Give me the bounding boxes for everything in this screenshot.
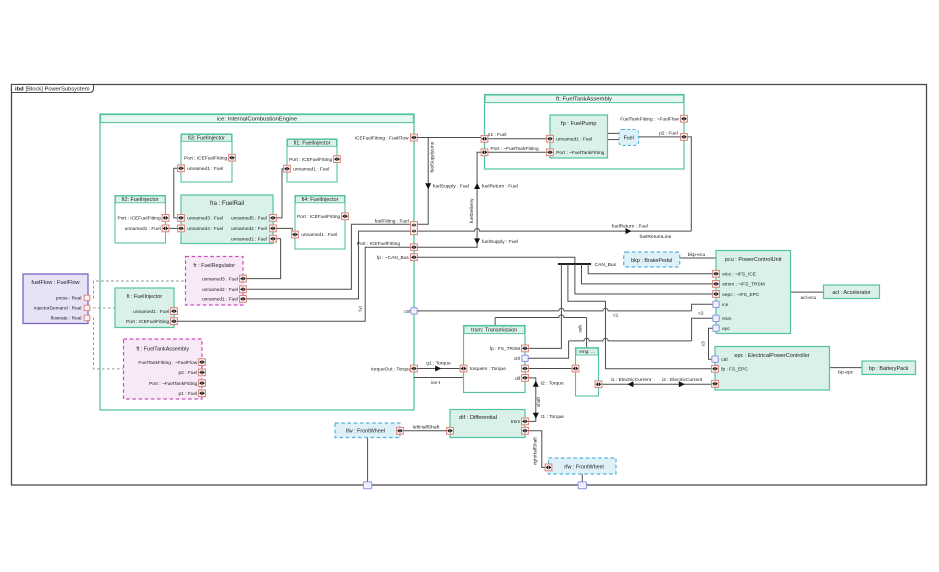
svg-text:fi3: FuelInjector: fi3: FuelInjector xyxy=(188,135,225,141)
svg-text:unnamed1 : Fuel: unnamed1 : Fuel xyxy=(301,232,337,238)
svg-text:t2 : Torque: t2 : Torque xyxy=(541,380,564,386)
svg-text:fp : ~CAN_Bus: fp : ~CAN_Bus xyxy=(377,255,409,261)
svg-text:f-rl: f-rl xyxy=(358,306,363,311)
svg-text:fuelFitting : Fuel: fuelFitting : Fuel xyxy=(375,218,409,224)
svg-text:leftHalfShaft: leftHalfShaft xyxy=(413,424,440,430)
svg-text:unnamed3 : Fuel: unnamed3 : Fuel xyxy=(187,216,223,222)
svg-text:unnamed1 : Fuel: unnamed1 : Fuel xyxy=(231,236,267,242)
svg-text:bp-epc: bp-epc xyxy=(838,370,854,376)
svg-text:fuelReturn : Fuel: fuelReturn : Fuel xyxy=(612,223,648,229)
svg-text:dif : Differential: dif : Differential xyxy=(459,415,497,421)
svg-text:fp : FS_EPC: fp : FS_EPC xyxy=(721,367,748,373)
svg-text:fuelFlow : FuelFlow: fuelFlow : FuelFlow xyxy=(31,280,80,286)
svg-text:unnamed1 : Fuel: unnamed1 : Fuel xyxy=(202,297,238,303)
svg-text:bkp-ecu: bkp-ecu xyxy=(688,252,706,258)
svg-text:Fuel: Fuel xyxy=(624,136,634,142)
svg-text:injectorDemand : Real: injectorDemand : Real xyxy=(34,306,81,312)
svg-text:fp : FuelPump: fp : FuelPump xyxy=(561,121,596,127)
svg-text:unnamed2 : Fuel: unnamed2 : Fuel xyxy=(202,287,238,293)
svg-text:rightHalfShaft: rightHalfShaft xyxy=(533,436,538,465)
svg-text:fuelDelivery: fuelDelivery xyxy=(469,198,474,223)
svg-text:etrsm : ~IFS_TRSM: etrsm : ~IFS_TRSM xyxy=(722,282,765,288)
svg-text:trsm: trsm xyxy=(722,316,731,322)
svg-text:Port : ICEFuelFitting: Port : ICEFuelFitting xyxy=(297,214,341,220)
svg-text:acl-ecu: acl-ecu xyxy=(801,295,817,301)
svg-text:flowrate : Real: flowrate : Real xyxy=(51,316,82,322)
svg-text:fuelSupply : Fuel: fuelSupply : Fuel xyxy=(482,239,518,245)
svg-text:trsm: Transmission: trsm: Transmission xyxy=(471,328,517,334)
svg-text:p2 : Fuel: p2 : Fuel xyxy=(179,370,198,376)
svg-text:ice: InternalCombustionEngine: ice: InternalCombustionEngine xyxy=(217,116,298,122)
svg-text:eepc : ~IFS_EPC: eepc : ~IFS_EPC xyxy=(722,292,760,298)
svg-text:c2: c2 xyxy=(698,311,703,317)
svg-text:Port : ~FuelTankFitting: Port : ~FuelTankFitting xyxy=(491,146,539,152)
svg-text:torqueIn : Torque: torqueIn : Torque xyxy=(470,366,507,372)
svg-text:fuelReturnLine: fuelReturnLine xyxy=(640,234,672,240)
svg-text:bp : BatteryPack: bp : BatteryPack xyxy=(869,366,909,372)
svg-text:Port : ICEFuelFitting: Port : ICEFuelFitting xyxy=(357,241,401,247)
svg-text:fp : FS_TRSM: fp : FS_TRSM xyxy=(490,346,520,352)
svg-text:Port : ICEFuelFitting: Port : ICEFuelFitting xyxy=(118,216,162,222)
svg-text:t1 : Torque: t1 : Torque xyxy=(541,414,564,420)
svg-text:Port : ICEFuelFitting: Port : ICEFuelFitting xyxy=(289,157,333,163)
svg-text:ft: FuelTankAssembly: ft: FuelTankAssembly xyxy=(556,97,612,103)
svg-text:ibd: ibd xyxy=(15,86,24,92)
svg-text:p1 : Fuel: p1 : Fuel xyxy=(488,132,507,138)
svg-text:unnamed2 : Fuel: unnamed2 : Fuel xyxy=(231,226,267,232)
svg-text:ice-t: ice-t xyxy=(431,380,441,386)
svg-text:FuelTankFitting : ~FuelFlow: FuelTankFitting : ~FuelFlow xyxy=(620,117,679,123)
svg-text:fi : FuelInjector: fi : FuelInjector xyxy=(127,294,163,300)
svg-text:bkp : BrakePedal: bkp : BrakePedal xyxy=(631,258,672,264)
svg-text:rfw : FrontWheel: rfw : FrontWheel xyxy=(564,465,604,471)
svg-text:epc: epc xyxy=(722,327,730,332)
svg-text:fuelReturn : Fuel: fuelReturn : Fuel xyxy=(482,184,518,190)
svg-text:c3: c3 xyxy=(700,341,705,346)
svg-text:unnamed1 : Fuel: unnamed1 : Fuel xyxy=(125,226,161,232)
svg-text:p1 : Fuel: p1 : Fuel xyxy=(179,391,198,397)
svg-text:shaft: shaft xyxy=(536,396,541,407)
svg-text:lfw : FrontWheel: lfw : FrontWheel xyxy=(346,428,385,434)
svg-text:fi4: FuelInjector: fi4: FuelInjector xyxy=(302,197,339,203)
svg-text:fuelSupply : Fuel: fuelSupply : Fuel xyxy=(433,184,469,190)
svg-text:fr : FuelRegulator: fr : FuelRegulator xyxy=(193,263,235,269)
svg-text:g1 : Torque: g1 : Torque xyxy=(426,360,451,366)
svg-text:ice: ice xyxy=(722,302,728,308)
svg-text:fi2: FuelInjector: fi2: FuelInjector xyxy=(122,197,159,203)
svg-text:epc : ElectricalPowerControlle: epc : ElectricalPowerController xyxy=(734,353,809,359)
svg-text:sub: sub xyxy=(578,325,583,333)
svg-text:fuelSupplyLine: fuelSupplyLine xyxy=(429,141,434,172)
svg-text:unnamed1 : Fuel: unnamed1 : Fuel xyxy=(187,166,223,172)
svg-text:torqueOut : Torque: torqueOut : Torque xyxy=(371,366,411,372)
svg-text:Port : ~FuelTankFitting: Port : ~FuelTankFitting xyxy=(556,150,604,156)
svg-text:fra : FuelRail: fra : FuelRail xyxy=(210,201,244,207)
svg-text:pcu : PowerControlUnit: pcu : PowerControlUnit xyxy=(725,257,782,263)
svg-text:c1: c1 xyxy=(613,313,618,319)
svg-text:acl : Accelerator: acl : Accelerator xyxy=(832,290,871,296)
svg-text:unnamed1 : Fuel: unnamed1 : Fuel xyxy=(556,136,592,142)
svg-text:unnamed1 : Fuel: unnamed1 : Fuel xyxy=(293,166,329,172)
svg-text:unnamed3 : Fuel: unnamed3 : Fuel xyxy=(202,276,238,282)
svg-text:eice : ~IFS_ICE: eice : ~IFS_ICE xyxy=(722,272,756,278)
svg-text:Port : ICEFuelFitting: Port : ICEFuelFitting xyxy=(126,319,170,325)
svg-text:emg: ...: emg: ... xyxy=(579,349,595,354)
svg-text:Port : ICEFuelFitting: Port : ICEFuelFitting xyxy=(184,155,228,161)
svg-text:[Block] PowerSubsystem: [Block] PowerSubsystem xyxy=(26,86,90,92)
svg-text:ctrl: ctrl xyxy=(721,357,727,363)
svg-text:dif: dif xyxy=(515,376,521,382)
svg-text:i1 : ElectricCurrent: i1 : ElectricCurrent xyxy=(611,377,652,383)
svg-text:trsm: trsm xyxy=(511,419,520,425)
svg-text:ft : FuelTankAssembly: ft : FuelTankAssembly xyxy=(136,347,189,353)
svg-text:unnamed1 : Fuel: unnamed1 : Fuel xyxy=(133,309,169,315)
svg-text:i2 : ElectricCurrent: i2 : ElectricCurrent xyxy=(662,377,703,383)
svg-text:Port : ~FuelTankFitting: Port : ~FuelTankFitting xyxy=(149,381,197,387)
svg-text:ICEFuelFitting : FuelFlow: ICEFuelFitting : FuelFlow xyxy=(355,136,409,142)
svg-text:p2 : Fuel: p2 : Fuel xyxy=(659,131,678,137)
svg-text:press : Real: press : Real xyxy=(56,296,82,302)
svg-text:FuelTankFitting : ~FuelFlow: FuelTankFitting : ~FuelFlow xyxy=(138,360,197,366)
svg-text:unnamed4 : Fuel: unnamed4 : Fuel xyxy=(187,226,223,232)
svg-text:unnamed5 : Fuel: unnamed5 : Fuel xyxy=(231,216,267,222)
svg-text:ctrl: ctrl xyxy=(404,309,410,315)
svg-text:ctrl: ctrl xyxy=(514,356,520,362)
svg-text:CAN_Bus: CAN_Bus xyxy=(595,262,617,268)
svg-text:fi1: FuelInjector: fi1: FuelInjector xyxy=(294,140,331,146)
